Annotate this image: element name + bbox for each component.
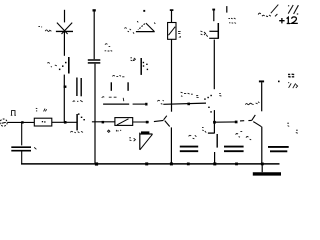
transistor VT5 dots xyxy=(143,62,148,70)
contact stubs K1 xyxy=(111,82,128,91)
resistor R1 xyxy=(34,118,52,126)
ground xyxy=(253,164,281,174)
label C1 xyxy=(34,147,36,149)
node F terminal on N1 xyxy=(145,103,147,106)
wire diode to VT2 xyxy=(63,32,65,56)
node G junction on N1 xyxy=(187,103,190,106)
transistor VT7 collector dots xyxy=(204,95,212,100)
label R3 xyxy=(178,31,181,37)
capacitor C2 vertical plates xyxy=(77,78,81,97)
wire VT8 to bus xyxy=(214,152,216,164)
transistor VT5 bar xyxy=(140,58,142,75)
wire VT9 emitter down to ground xyxy=(261,127,263,164)
label under R2 xyxy=(108,130,122,133)
bus ground rail xyxy=(21,163,280,165)
wire VT7 emitter down xyxy=(213,110,215,133)
transistor VT8 bar xyxy=(216,134,218,148)
node I junction xyxy=(235,121,238,124)
resistor R3 terminal xyxy=(170,9,174,11)
transistor VT6 xyxy=(164,116,170,127)
label +12 supply xyxy=(279,17,298,24)
label near output xyxy=(278,74,298,88)
label VD1 xyxy=(38,27,51,32)
transistor VT9 xyxy=(252,115,262,127)
wire terminal to R3 xyxy=(171,11,173,23)
wire input to R1 xyxy=(7,121,34,123)
transistor VT2 bar xyxy=(68,57,70,74)
transistor VT1 bar xyxy=(76,114,78,130)
label input xyxy=(11,111,16,116)
wire VT6 emitter to bus xyxy=(170,127,172,163)
transistor VT3 channel bar xyxy=(217,23,219,39)
diode VD1 xyxy=(56,23,73,34)
wire C3 down to bus xyxy=(94,64,96,164)
transistor VT3 gate lines xyxy=(209,31,218,38)
wire terminal to VT3 xyxy=(213,11,215,22)
node A junction xyxy=(21,121,23,123)
capacitor C3 xyxy=(88,60,101,63)
label VT7 xyxy=(196,93,221,97)
transistor VT1 collector dots xyxy=(78,113,85,120)
label R1 xyxy=(36,108,47,111)
switch SA1 mark xyxy=(226,6,228,13)
wire net N1 xyxy=(103,103,129,105)
wire VT9 collector up xyxy=(261,82,263,111)
node D junction xyxy=(102,121,105,124)
wire C1 to bus xyxy=(21,152,23,164)
wire base dash xyxy=(154,120,164,121)
label VT5 xyxy=(130,58,135,61)
label C6 xyxy=(287,123,298,133)
label measurement note xyxy=(181,92,193,96)
label above C3 xyxy=(105,44,113,52)
resistor R3 diagonal xyxy=(169,27,176,36)
capacitor C3 terminal xyxy=(93,9,96,11)
wire VT2 down to main wire xyxy=(63,75,65,122)
capacitor C6 xyxy=(268,147,289,151)
label C5 xyxy=(236,131,252,139)
label VT2 xyxy=(47,63,56,67)
wire net N1 right part xyxy=(163,103,206,104)
transistor VT3 JFET terminal xyxy=(212,9,215,11)
wire mid right run xyxy=(214,121,236,123)
wire diode column top xyxy=(64,10,66,23)
label C2 xyxy=(73,100,83,102)
wire branch down to C1 xyxy=(21,122,23,145)
resistor R3 thermistor body xyxy=(168,23,176,40)
buzzer BQ1 triangle xyxy=(136,23,155,32)
buzzer terminal dot xyxy=(143,10,145,12)
node E junction xyxy=(146,121,149,124)
junction dots on bus xyxy=(95,162,264,165)
label VT1 xyxy=(70,131,83,132)
wire R3 down to VT6 collector xyxy=(171,39,173,111)
wire R2 to VT3 base xyxy=(133,121,149,123)
capacitor C1 xyxy=(11,147,31,151)
wire main mid segment xyxy=(92,121,115,123)
transistor VT7 emitter dots xyxy=(208,107,212,113)
label K1 xyxy=(112,75,124,76)
transistor VT8 plate xyxy=(208,132,215,134)
label C4 xyxy=(189,135,197,139)
node B junction xyxy=(64,121,67,124)
label BQ1 xyxy=(124,28,131,32)
resistor R2 xyxy=(115,118,133,126)
label Vyhod cursive xyxy=(258,5,278,17)
label on N1 xyxy=(157,100,163,104)
transistor VT4 flag symbol xyxy=(140,133,153,150)
label V slashes xyxy=(288,5,298,14)
resistor R2 diagonal xyxy=(117,119,129,125)
wire dash to VT9 base xyxy=(240,119,252,122)
capacitor C4 xyxy=(180,147,198,152)
label VT3 xyxy=(200,31,207,37)
wire net N1 dash xyxy=(133,103,145,105)
transistor VT2 emitter dots xyxy=(59,62,67,70)
label VT8 xyxy=(202,128,206,133)
wire VT3 source down xyxy=(213,40,215,90)
input connector XS1 xyxy=(0,119,7,126)
node H junction xyxy=(213,121,216,124)
label VT9 xyxy=(245,102,259,105)
wire R1 to VT1 base xyxy=(52,121,77,123)
label SA1 xyxy=(228,18,236,23)
net label wire text row xyxy=(102,97,124,101)
resistor R1 inner marks xyxy=(42,121,46,123)
label VT4 xyxy=(129,138,135,141)
node C junction on left column xyxy=(64,86,67,88)
terminal output T xyxy=(259,80,264,82)
buzzer ticks xyxy=(133,21,155,34)
capacitor C5 xyxy=(224,147,244,152)
wire terminal to C3 xyxy=(93,12,95,60)
